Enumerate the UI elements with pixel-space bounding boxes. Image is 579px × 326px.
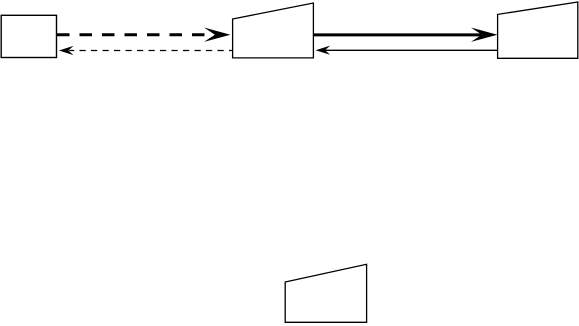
trapezoid right (node C) bbox=[498, 2, 578, 58]
thin solid arrow: trapezoid right to trapezoid center bbox=[316, 46, 498, 55]
trapezoid bottom (node D) bbox=[285, 264, 366, 322]
box left (rectangle node) bbox=[1, 15, 56, 57]
thin dashed arrow: trapezoid center to box left bbox=[59, 46, 233, 55]
thick dashed arrow: box left to trapezoid center bbox=[57, 28, 230, 42]
thick solid arrow: trapezoid center to trapezoid right bbox=[313, 28, 497, 42]
trapezoid center (node B) bbox=[233, 3, 314, 58]
